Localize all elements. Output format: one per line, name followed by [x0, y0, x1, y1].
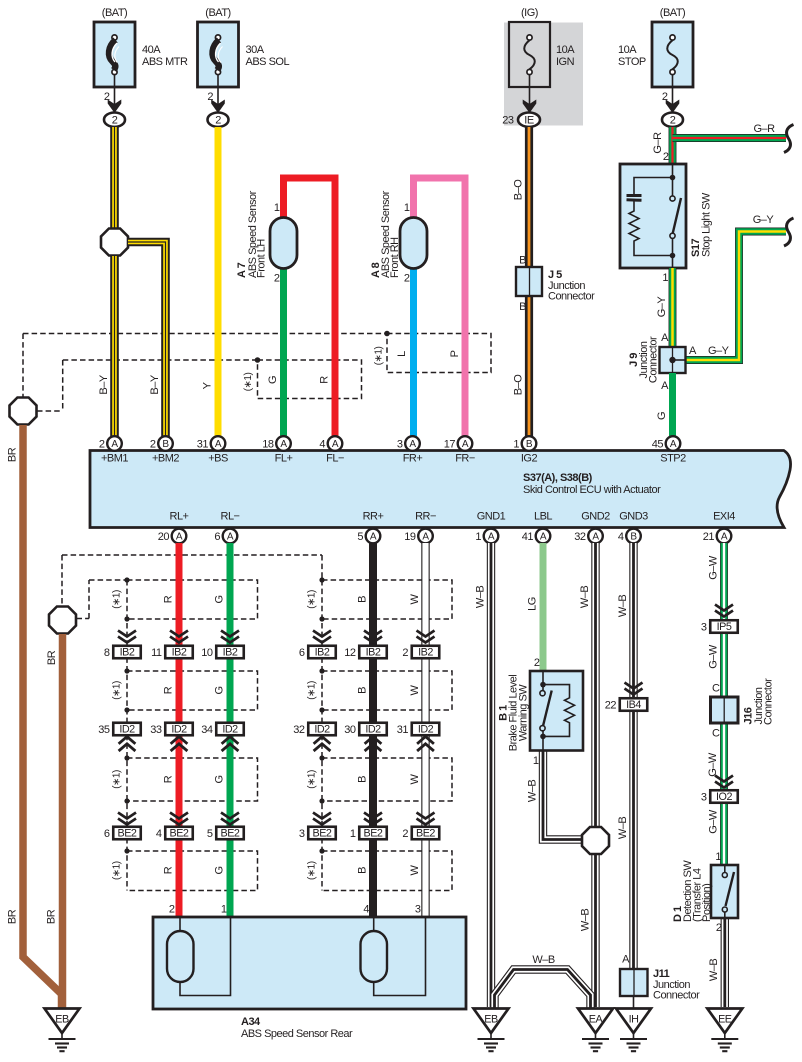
- svg-text:A: A: [409, 439, 416, 450]
- svg-text:+BM2: +BM2: [152, 453, 179, 465]
- svg-text:30: 30: [344, 724, 356, 736]
- svg-text:A: A: [670, 439, 677, 450]
- svg-text:B: B: [630, 532, 637, 543]
- svg-text:A: A: [661, 380, 669, 392]
- svg-text:(∗1): (∗1): [243, 373, 254, 392]
- svg-text:IB2: IB2: [172, 647, 187, 659]
- svg-text:FR+: FR+: [403, 453, 423, 465]
- svg-text:+BS: +BS: [208, 453, 228, 465]
- svg-text:2: 2: [663, 151, 669, 163]
- svg-text:ID2: ID2: [171, 724, 187, 736]
- svg-text:B–Y: B–Y: [98, 374, 110, 394]
- svg-text:R: R: [163, 595, 175, 603]
- svg-text:W–B: W–B: [580, 909, 592, 932]
- svg-text:EXI4: EXI4: [713, 511, 735, 523]
- svg-text:3: 3: [701, 791, 707, 803]
- svg-text:W: W: [409, 593, 421, 604]
- svg-text:2: 2: [670, 114, 676, 126]
- svg-text:L: L: [396, 351, 408, 357]
- svg-text:4: 4: [618, 531, 624, 543]
- svg-text:C: C: [712, 728, 720, 740]
- svg-text:W–B: W–B: [708, 959, 720, 982]
- svg-text:(BAT): (BAT): [660, 7, 685, 19]
- svg-text:2: 2: [99, 438, 105, 450]
- svg-text:2: 2: [662, 91, 668, 103]
- svg-text:32: 32: [293, 724, 305, 736]
- svg-text:IB2: IB2: [418, 647, 433, 659]
- svg-text:G–R: G–R: [753, 123, 775, 135]
- svg-text:5: 5: [357, 531, 363, 543]
- svg-text:GND1: GND1: [477, 511, 506, 523]
- svg-text:1: 1: [350, 828, 356, 840]
- svg-text:11: 11: [151, 647, 162, 659]
- svg-text:A: A: [280, 439, 287, 450]
- svg-text:A: A: [215, 439, 222, 450]
- svg-text:IB2: IB2: [120, 647, 135, 659]
- svg-text:B: B: [519, 255, 526, 267]
- svg-text:B: B: [526, 439, 533, 450]
- svg-text:A: A: [661, 332, 669, 344]
- svg-text:35: 35: [98, 724, 110, 736]
- svg-text:B–O: B–O: [513, 374, 525, 395]
- svg-text:BR: BR: [46, 909, 58, 924]
- svg-text:LG: LG: [527, 597, 539, 611]
- svg-text:C: C: [712, 683, 720, 695]
- svg-text:Connector: Connector: [648, 336, 660, 383]
- svg-text:40A: 40A: [142, 44, 161, 56]
- svg-text:R: R: [163, 866, 175, 874]
- svg-text:B: B: [519, 301, 526, 313]
- svg-text:G: G: [214, 686, 226, 694]
- svg-text:IG2: IG2: [521, 453, 538, 465]
- svg-text:G–Y: G–Y: [753, 214, 775, 226]
- svg-text:RR+: RR+: [363, 511, 384, 523]
- svg-text:R: R: [163, 775, 175, 783]
- svg-text:(∗1): (∗1): [307, 861, 318, 880]
- svg-text:IB2: IB2: [366, 647, 381, 659]
- svg-text:B: B: [357, 596, 369, 603]
- svg-text:2: 2: [215, 114, 221, 126]
- svg-text:RL+: RL+: [170, 511, 189, 523]
- svg-text:A: A: [176, 532, 183, 543]
- svg-text:18: 18: [262, 438, 274, 450]
- svg-text:+BM1: +BM1: [101, 453, 128, 465]
- svg-text:W: W: [409, 684, 421, 695]
- svg-text:W: W: [409, 773, 421, 784]
- svg-text:W–B: W–B: [579, 586, 591, 609]
- svg-text:ABS MTR: ABS MTR: [142, 56, 188, 68]
- svg-text:33: 33: [150, 724, 162, 736]
- svg-text:A: A: [422, 532, 429, 543]
- svg-text:IE: IE: [524, 114, 534, 126]
- svg-text:3: 3: [299, 828, 305, 840]
- svg-text:(∗1): (∗1): [112, 770, 123, 789]
- svg-text:6: 6: [214, 531, 220, 543]
- svg-text:FL+: FL+: [275, 453, 293, 465]
- svg-text:4: 4: [156, 828, 162, 840]
- svg-text:A: A: [111, 439, 118, 450]
- svg-text:A: A: [370, 532, 377, 543]
- svg-text:S37(A), S38(B): S37(A), S38(B): [523, 472, 593, 484]
- svg-text:ID2: ID2: [418, 724, 434, 736]
- svg-text:LBL: LBL: [534, 511, 552, 523]
- svg-text:10A: 10A: [618, 44, 637, 56]
- svg-text:STOP: STOP: [618, 56, 646, 68]
- svg-text:IB4: IB4: [626, 699, 641, 711]
- svg-text:(IG): (IG): [521, 7, 538, 19]
- svg-text:A: A: [592, 532, 599, 543]
- svg-text:IB2: IB2: [315, 647, 330, 659]
- svg-text:Stop Light SW: Stop Light SW: [701, 192, 713, 257]
- svg-text:12: 12: [344, 647, 356, 659]
- svg-text:6: 6: [299, 647, 305, 659]
- svg-text:BE2: BE2: [170, 828, 189, 840]
- svg-text:BE2: BE2: [313, 828, 332, 840]
- svg-text:23: 23: [502, 115, 514, 127]
- svg-text:Position): Position): [701, 884, 713, 922]
- svg-text:IO2: IO2: [716, 791, 732, 803]
- svg-text:Y: Y: [202, 381, 214, 389]
- svg-text:Connector: Connector: [763, 678, 775, 725]
- svg-text:Warning SW: Warning SW: [518, 684, 530, 741]
- svg-text:2: 2: [104, 91, 110, 103]
- svg-text:R: R: [319, 376, 331, 384]
- svg-text:30A: 30A: [246, 44, 265, 56]
- svg-text:Connector: Connector: [548, 291, 595, 303]
- svg-text:IP5: IP5: [717, 621, 732, 633]
- svg-text:ABS Speed Sensor Rear: ABS Speed Sensor Rear: [241, 1028, 353, 1040]
- svg-text:A34: A34: [241, 1016, 261, 1028]
- svg-text:A: A: [622, 954, 630, 966]
- svg-text:G: G: [656, 412, 668, 420]
- svg-text:BE2: BE2: [221, 828, 240, 840]
- svg-text:G–W: G–W: [708, 809, 720, 834]
- svg-text:G: G: [214, 775, 226, 783]
- svg-text:BE2: BE2: [364, 828, 383, 840]
- svg-text:B: B: [162, 439, 169, 450]
- svg-text:(∗1): (∗1): [307, 681, 318, 700]
- svg-text:W–B: W–B: [527, 780, 539, 803]
- svg-text:(∗1): (∗1): [112, 861, 123, 880]
- svg-text:41: 41: [522, 531, 534, 543]
- svg-text:Skid Control ECU with Actuator: Skid Control ECU with Actuator: [523, 484, 661, 496]
- svg-text:G–Y: G–Y: [656, 296, 668, 318]
- svg-text:FL−: FL−: [326, 453, 344, 465]
- svg-text:1: 1: [715, 851, 721, 863]
- svg-text:W–B: W–B: [532, 954, 555, 966]
- svg-text:EA: EA: [589, 1014, 604, 1026]
- svg-text:1: 1: [475, 531, 481, 543]
- svg-text:BR: BR: [46, 650, 58, 665]
- svg-text:EE: EE: [718, 1014, 732, 1026]
- svg-text:1: 1: [533, 755, 539, 767]
- svg-text:A: A: [227, 532, 234, 543]
- svg-text:3: 3: [701, 621, 707, 633]
- svg-text:Front RH: Front RH: [389, 237, 401, 278]
- svg-text:2: 2: [402, 828, 408, 840]
- svg-text:(∗1): (∗1): [307, 590, 318, 609]
- svg-text:22: 22: [605, 699, 617, 711]
- svg-text:2: 2: [112, 114, 118, 126]
- svg-text:W–B: W–B: [475, 586, 487, 609]
- svg-text:BE2: BE2: [416, 828, 435, 840]
- svg-text:(BAT): (BAT): [102, 7, 127, 19]
- svg-text:GND2: GND2: [581, 511, 610, 523]
- svg-text:A: A: [540, 532, 547, 543]
- svg-text:4: 4: [319, 438, 325, 450]
- svg-text:32: 32: [574, 531, 586, 543]
- svg-text:3: 3: [397, 438, 403, 450]
- svg-text:17: 17: [444, 438, 456, 450]
- svg-text:Front LH: Front LH: [256, 239, 268, 278]
- svg-text:10A: 10A: [556, 44, 575, 56]
- svg-text:G–W: G–W: [708, 555, 720, 580]
- svg-text:(BAT): (BAT): [205, 7, 230, 19]
- svg-text:ID2: ID2: [314, 724, 330, 736]
- svg-text:21: 21: [703, 531, 715, 543]
- svg-text:6: 6: [104, 828, 110, 840]
- svg-text:31: 31: [197, 438, 209, 450]
- svg-text:G: G: [267, 376, 279, 384]
- svg-text:45: 45: [652, 438, 664, 450]
- svg-text:B: B: [357, 687, 369, 694]
- svg-text:BE2: BE2: [118, 828, 137, 840]
- svg-text:RR−: RR−: [415, 511, 436, 523]
- svg-text:IB2: IB2: [223, 647, 238, 659]
- svg-text:ABS SOL: ABS SOL: [246, 56, 290, 68]
- svg-text:1: 1: [404, 202, 410, 214]
- svg-text:2: 2: [716, 922, 722, 934]
- svg-text:1: 1: [662, 272, 668, 284]
- svg-text:2: 2: [274, 273, 280, 285]
- svg-text:20: 20: [158, 531, 170, 543]
- svg-text:R: R: [163, 686, 175, 694]
- svg-text:1: 1: [221, 904, 227, 916]
- svg-text:34: 34: [201, 724, 213, 736]
- svg-text:FR−: FR−: [455, 453, 475, 465]
- svg-text:EB: EB: [55, 1014, 69, 1026]
- svg-text:A: A: [332, 439, 339, 450]
- svg-text:5: 5: [207, 828, 213, 840]
- svg-text:W–B: W–B: [617, 817, 629, 840]
- svg-text:2: 2: [402, 647, 408, 659]
- svg-text:W: W: [409, 864, 421, 875]
- svg-text:10: 10: [201, 647, 213, 659]
- svg-text:BR: BR: [7, 447, 19, 462]
- svg-text:BR: BR: [7, 909, 19, 924]
- svg-text:2: 2: [150, 438, 156, 450]
- svg-text:(∗1): (∗1): [307, 770, 318, 789]
- svg-text:STP2: STP2: [660, 453, 686, 465]
- svg-text:ID2: ID2: [365, 724, 381, 736]
- svg-text:A: A: [689, 345, 697, 357]
- svg-text:RL−: RL−: [221, 511, 240, 523]
- svg-text:2: 2: [534, 657, 540, 669]
- svg-text:G: G: [214, 866, 226, 874]
- svg-text:2: 2: [404, 273, 410, 285]
- svg-text:(∗1): (∗1): [112, 681, 123, 700]
- svg-text:B: B: [357, 776, 369, 783]
- svg-text:19: 19: [404, 531, 416, 543]
- svg-text:4: 4: [363, 904, 369, 916]
- svg-text:3: 3: [415, 904, 421, 916]
- svg-text:P: P: [449, 350, 461, 357]
- svg-text:A: A: [721, 532, 728, 543]
- svg-text:EB: EB: [484, 1014, 498, 1026]
- svg-text:G–W: G–W: [708, 644, 720, 669]
- svg-text:A: A: [488, 532, 495, 543]
- svg-text:G: G: [214, 595, 226, 603]
- svg-text:IH: IH: [629, 1014, 639, 1026]
- svg-text:(∗1): (∗1): [112, 590, 123, 609]
- svg-text:B–O: B–O: [513, 179, 525, 200]
- svg-text:B: B: [357, 867, 369, 874]
- svg-text:ID2: ID2: [222, 724, 238, 736]
- svg-text:IGN: IGN: [556, 56, 575, 68]
- svg-text:ID2: ID2: [119, 724, 135, 736]
- svg-text:1: 1: [513, 438, 519, 450]
- svg-text:A: A: [462, 439, 469, 450]
- svg-text:G–Y: G–Y: [708, 345, 730, 357]
- svg-text:G–W: G–W: [707, 752, 719, 777]
- svg-text:1: 1: [274, 202, 280, 214]
- svg-text:2: 2: [169, 904, 175, 916]
- svg-text:GND3: GND3: [619, 511, 648, 523]
- svg-text:Connector: Connector: [653, 990, 700, 1002]
- svg-text:2: 2: [207, 91, 213, 103]
- svg-text:(∗1): (∗1): [374, 347, 385, 366]
- svg-text:31: 31: [397, 724, 409, 736]
- svg-text:8: 8: [104, 647, 110, 659]
- svg-text:B–Y: B–Y: [149, 374, 161, 394]
- svg-text:W–B: W–B: [617, 595, 629, 618]
